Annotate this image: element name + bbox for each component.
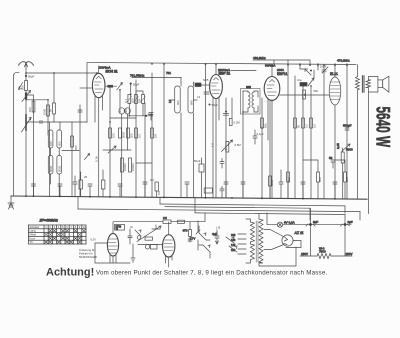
- svg-text:50k: 50k: [264, 123, 268, 128]
- capacitor 50: [331, 160, 335, 168]
- svg-text:5000: 5000: [57, 165, 61, 172]
- svg-text:150V: 150V: [301, 252, 308, 256]
- wire v x347: [346, 64, 348, 200]
- cap 4uF: [212, 230, 219, 244]
- svg-text:50: 50: [303, 92, 307, 96]
- resistors IF column: [128, 95, 131, 104]
- resistor 470: [189, 230, 192, 237]
- wire antenna column down: [25, 100, 27, 196]
- capacitor 0.1: [253, 130, 257, 144]
- resistors row2: [109, 128, 112, 138]
- wire h y118: [110, 117, 136, 119]
- svg-text:689: 689: [190, 100, 194, 105]
- wire v x226: [225, 98, 227, 198]
- svg-text:AZ 11: AZ 11: [294, 231, 304, 235]
- IF transformer 2 shield box: [241, 89, 261, 115]
- capacitor 50pF dot: [130, 83, 132, 85]
- coil L1 dark: [22, 91, 31, 102]
- svg-text:600: 600: [57, 141, 61, 146]
- second top rail: [132, 77, 181, 79]
- voltage selector: [226, 233, 246, 254]
- Achtung line: [46, 267, 328, 279]
- grid cap left of EBF11: [204, 92, 209, 94]
- svg-text:1W: 1W: [157, 190, 161, 195]
- svg-text:1,5: 1,5: [211, 143, 215, 147]
- tube ECH11: [92, 66, 105, 197]
- volume pot: [220, 140, 233, 198]
- svg-text:50: 50: [297, 124, 301, 128]
- cap 10uF: [322, 66, 326, 199]
- resistor 500: [25, 81, 28, 91]
- antenna: [19, 62, 34, 74]
- coil L2 variable: [22, 115, 32, 132]
- junction dots on bus: [25, 195, 336, 200]
- svg-text:470: 470: [183, 229, 188, 233]
- resistor 1000: [47, 105, 50, 116]
- wire v x33.5: [26, 95, 34, 196]
- junction dots: [25, 63, 348, 150]
- svg-text:150: 150: [231, 238, 236, 242]
- svg-text:1000: 1000: [43, 108, 47, 115]
- tube EBF11: [210, 64, 223, 198]
- svg-text:5000: 5000: [49, 165, 53, 172]
- tube EFM11 bottom: [95, 222, 130, 263]
- band switch arm: [117, 83, 123, 90]
- svg-text:50pF: 50pF: [133, 82, 140, 86]
- svg-text:8μF: 8μF: [313, 220, 318, 224]
- switch arm: [308, 70, 314, 86]
- resistor 300 dark: [107, 85, 113, 88]
- resistor tall right: [341, 152, 344, 163]
- coil pair horizontal: [119, 108, 124, 114]
- svg-text:100: 100: [28, 107, 32, 112]
- mains switch: [199, 226, 210, 258]
- wire v x60: [59, 122, 61, 130]
- svg-text:L B: L B: [216, 226, 220, 230]
- svg-text:L3: L3: [197, 95, 201, 99]
- svg-text:5/25: 5/25: [203, 78, 209, 82]
- svg-text:50k: 50k: [314, 89, 319, 93]
- capacitor 100: [224, 114, 229, 116]
- svg-text:600: 600: [124, 108, 128, 113]
- svg-text:10000: 10000: [123, 163, 127, 171]
- IF transformer 1: [171, 78, 197, 198]
- bottom mid circuit: [91, 225, 164, 262]
- svg-text:220: 220: [231, 233, 236, 237]
- svg-text:L5: L5: [168, 99, 172, 103]
- svg-text:200: 200: [130, 133, 134, 138]
- svg-text:50: 50: [329, 156, 333, 160]
- resistor 50k: [261, 118, 264, 128]
- svg-text:100: 100: [112, 133, 116, 138]
- svg-text:781: 781: [166, 71, 171, 75]
- coupling arrow: [19, 83, 23, 90]
- svg-text:8μF: 8μF: [348, 220, 353, 224]
- coil pair bottom left-mid: [121, 158, 124, 172]
- component C8: [204, 188, 212, 193]
- svg-text:100: 100: [131, 98, 135, 103]
- wire y150.5: [62, 150, 79, 152]
- wire v x72: [71, 122, 73, 197]
- wire v x288 x295: [288, 60, 295, 199]
- svg-text:Achtung!: Achtung!: [46, 267, 94, 279]
- capacitor at x80: [78, 105, 82, 112]
- svg-text:0,5: 0,5: [138, 134, 142, 138]
- svg-text:10: 10: [83, 225, 86, 229]
- svg-text:EBF11: EBF11: [277, 72, 287, 76]
- svg-text:100: 100: [49, 141, 53, 146]
- svg-text:0,5: 0,5: [313, 124, 317, 128]
- svg-text:0,1: 0,1: [124, 99, 128, 103]
- IF transformer 2 coils: [243, 91, 258, 112]
- svg-text:650: 650: [74, 145, 78, 150]
- resistors far mid: [294, 118, 297, 128]
- svg-text:500: 500: [21, 85, 25, 90]
- svg-text:468,8kHz: 468,8kHz: [253, 56, 266, 60]
- resistor 5000 dark: [300, 83, 307, 87]
- svg-text:ECH 11: ECH 11: [106, 69, 118, 73]
- coil pair upper: [48, 130, 61, 148]
- svg-text:6V 0,3A: 6V 0,3A: [284, 221, 295, 225]
- node joins top: [26, 72, 97, 74]
- resistor 0,2M: [229, 119, 232, 126]
- output transformer: [355, 65, 378, 199]
- speaker: [378, 76, 389, 92]
- svg-text:ZF=468kHz: ZF=468kHz: [39, 219, 59, 223]
- svg-text:100: 100: [318, 177, 322, 182]
- wire v x164: [163, 64, 165, 198]
- wire h y122: [26, 121, 87, 123]
- svg-text:5640WK/GWK: 5640WK/GWK: [79, 255, 97, 259]
- wire v x232 x243: [232, 91, 243, 198]
- band table: [29, 225, 87, 244]
- power rails below bus: [78, 204, 360, 215]
- svg-text:4μF: 4μF: [212, 232, 217, 236]
- wire AF coupling y95: [280, 94, 329, 96]
- pot tone: [342, 144, 353, 152]
- wire branch y98: [26, 100, 48, 135]
- svg-text:0,1A: 0,1A: [95, 156, 99, 162]
- svg-text:0,05: 0,05: [336, 143, 340, 149]
- electrolytic 8uF b: [341, 215, 353, 257]
- svg-text:0,2: 0,2: [305, 124, 309, 128]
- svg-text:25: 25: [84, 175, 88, 179]
- resistor: [71, 136, 74, 147]
- left power entry: [114, 213, 206, 250]
- capacitor 50uF h: [149, 113, 153, 121]
- svg-text:600: 600: [118, 108, 122, 113]
- svg-text:17V: 17V: [190, 237, 195, 241]
- wire grid return y88: [80, 87, 92, 89]
- svg-text:10000: 10000: [131, 163, 135, 171]
- coil pair lower 5000: [48, 148, 61, 196]
- bottom mid small parts: caps/resistors above ground bus: [32, 170, 105, 197]
- arrow on x87: [85, 154, 90, 160]
- svg-text:C6: C6: [163, 216, 167, 220]
- power transformer: [246, 214, 296, 266]
- svg-text:110: 110: [231, 248, 236, 252]
- wire right v: [368, 92, 370, 214]
- svg-text:0,2M: 0,2M: [234, 121, 241, 125]
- svg-text:125: 125: [231, 243, 236, 247]
- capacitor 500pF: [345, 128, 349, 130]
- wire v x303 x311: [303, 86, 311, 199]
- svg-text:EL11: EL11: [330, 72, 338, 76]
- trimmer cap dark: [195, 83, 201, 87]
- capacitor C-ant 50pF: [25, 74, 35, 81]
- wire v x49.5: [49, 122, 51, 196]
- wire v x80: [79, 110, 81, 197]
- wire y115.8 + cap 4uF: [129, 115, 152, 117]
- svg-text:Ura: Ura: [297, 78, 302, 82]
- svg-text:781,65kHz: 781,65kHz: [130, 74, 145, 78]
- svg-text:5640 W: 5640 W: [372, 107, 392, 148]
- svg-text:50: 50: [49, 108, 53, 112]
- note text: [79, 248, 97, 259]
- rectifier AZ11: [264, 230, 304, 250]
- svg-text:478,8kHz: 478,8kHz: [337, 59, 350, 63]
- svg-text:600: 600: [176, 100, 180, 105]
- resistor 100: [32, 101, 35, 112]
- tube EF11 (demod): [264, 64, 280, 198]
- svg-text:150V: 150V: [346, 252, 353, 256]
- resistor 50 drop: [53, 73, 55, 122]
- svg-text:TA: TA: [30, 240, 33, 244]
- svg-text:1M: 1M: [138, 98, 142, 103]
- ground bus: [11, 196, 367, 199]
- ground symbol: [8, 196, 14, 209]
- wire verticals mid-left group: [110, 73, 152, 197]
- wire v x205.5: [205, 64, 207, 198]
- svg-text:Vom oberen Punkt der Schalter: Vom oberen Punkt der Schalter 7, 8, 9 li…: [96, 270, 328, 277]
- value labels: [21, 65, 350, 230]
- dial lamp: [267, 213, 351, 227]
- svg-text:100: 100: [287, 177, 291, 182]
- svg-text:5000: 5000: [122, 131, 126, 138]
- svg-text:Kurz: Kurz: [30, 236, 36, 240]
- svg-text:1M: 1M: [154, 133, 158, 138]
- table X marks: [45, 229, 86, 243]
- tube EBF11 bottom: [163, 222, 175, 267]
- wire h y163: [136, 162, 152, 164]
- wire h y150 + pot arrow: [103, 146, 131, 153]
- svg-text:5000: 5000: [346, 148, 353, 152]
- tube EL11: [329, 64, 341, 199]
- svg-text:100: 100: [345, 177, 349, 182]
- svg-text:50μF: 50μF: [194, 159, 201, 163]
- electrolytic 8uF a: [306, 209, 318, 257]
- svg-text:50pF: 50pF: [212, 103, 219, 107]
- svg-text:7500: 7500: [319, 250, 326, 254]
- svg-text:0,1: 0,1: [150, 178, 154, 182]
- svg-text:0,1μF: 0,1μF: [257, 132, 264, 136]
- svg-text:Schalter: Schalter: [30, 225, 40, 229]
- svg-text:6,3V: 6,3V: [91, 238, 97, 242]
- svg-text:Lang: Lang: [30, 229, 36, 233]
- svg-text:EBF 11: EBF 11: [219, 72, 231, 76]
- svg-text:50pF: 50pF: [28, 75, 35, 79]
- wire v x262 x270: [262, 98, 270, 198]
- bottom rail with resistor: [300, 247, 353, 259]
- wire left rail: [14, 72, 20, 196]
- top bus: [87, 63, 356, 123]
- top right switch group: [300, 64, 328, 76]
- resistor 50: [303, 90, 306, 99]
- svg-text:Mittel: Mittel: [30, 233, 37, 237]
- svg-text:5000: 5000: [270, 179, 274, 186]
- svg-text:0,5M: 0,5M: [235, 143, 242, 147]
- caps under mid verticals: [118, 158, 346, 199]
- svg-text:500pF: 500pF: [343, 124, 352, 128]
- capacitor 50pF: [209, 104, 211, 106]
